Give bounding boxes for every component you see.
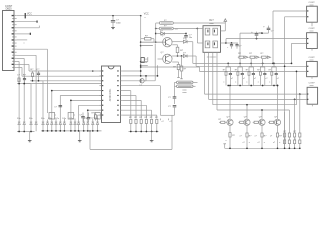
- capacitor C6: [173, 105, 177, 107]
- capacitor C12: [88, 113, 90, 118]
- wire F2 out: [173, 28, 197, 30]
- cell matrix: [223, 63, 233, 86]
- wire relay3 to CON4 pin2: [213, 104, 297, 106]
- junction cluster dots: [18, 83, 20, 85]
- wire y45.6: [141, 45, 153, 47]
- power arrow VCC2: [224, 19, 227, 22]
- wire xtal net2: [123, 80, 156, 82]
- junction dots resistor row: [130, 131, 132, 133]
- wire relay2 to CON5 pin2: [209, 98, 308, 100]
- ground drop 1: [29, 132, 31, 141]
- bus bottom left segment2: [41, 130, 102, 132]
- wire Q2 collector: [172, 55, 183, 57]
- part box on column x51.8: [49, 113, 55, 120]
- stub CON5 bottom: [311, 104, 313, 106]
- capacitor on column: [59, 105, 63, 107]
- diode D1 cluster: [32, 71, 34, 73]
- wire relay4 down: [217, 109, 289, 111]
- wire Q2 base: [158, 58, 163, 60]
- transistor Q3: [227, 119, 233, 125]
- wire y45.6: [141, 45, 153, 47]
- wires U1 left staircase: [52, 90, 102, 92]
- wire CON1 pin18 to U1: [17, 67, 22, 69]
- wire y65.4: [141, 64, 148, 66]
- junction dots busL2: [42, 130, 44, 132]
- svg-text:x: x: [101, 115, 102, 117]
- diode D5: [183, 55, 187, 58]
- junction vmain: [140, 41, 142, 43]
- svg-text:x?: x?: [254, 78, 256, 80]
- diode D2 cluster: [18, 76, 20, 78]
- wire CON1 pin12 to column: [17, 48, 48, 50]
- svg-text:xx: xx: [145, 62, 147, 64]
- wire from R4: [151, 38, 154, 40]
- wire xtal net1: [123, 75, 158, 77]
- relay RL1: [203, 26, 221, 53]
- relay RL1 contact A: [205, 41, 210, 48]
- crystal X1: [141, 58, 144, 63]
- svg-text:x: x: [249, 142, 250, 144]
- wire F2 in: [156, 28, 160, 30]
- relay pin stubs: [204, 52, 206, 94]
- fuse F1: [159, 22, 173, 25]
- wire resonator right: [193, 81, 198, 83]
- relay right pin2 wire: [221, 42, 227, 44]
- relay RL1 coil B: [213, 28, 218, 35]
- svg-text:D?x: D?x: [17, 118, 21, 120]
- svg-text:xxxx: xxxx: [310, 85, 314, 87]
- resistor row right of U1: [130, 119, 132, 123]
- wire CON1 pin16 to column: [17, 61, 20, 63]
- svg-text:R?: R?: [235, 70, 237, 72]
- resonator Y1: [175, 81, 177, 83]
- svg-text:R?: R?: [257, 70, 259, 72]
- svg-text:D?x: D?x: [29, 118, 33, 120]
- wire stub pin3: [17, 21, 37, 23]
- wire relay1 to CON5 pin1: [205, 93, 308, 95]
- wire Q3 collector: [229, 86, 231, 120]
- wire cluster2 to U1: [25, 83, 102, 85]
- connector CON2: [307, 6, 318, 22]
- bus bottom left: [90, 148, 172, 150]
- svg-text:x: x: [145, 17, 146, 19]
- svg-text:x: x: [74, 115, 75, 117]
- ground under resistor row: [151, 132, 153, 141]
- svg-text:x: x: [235, 82, 236, 84]
- wire F1 out: [173, 22, 225, 24]
- svg-text:AT89C2051: AT89C2051: [109, 88, 112, 101]
- svg-text:x?: x?: [231, 78, 233, 80]
- wire stub pin9: [17, 39, 28, 41]
- resistor Q3 emitter: [229, 125, 231, 132]
- wire U1 pin right to loop: [123, 85, 161, 87]
- resistor Q3 base: [219, 121, 221, 123]
- wire y67 long: [141, 66, 200, 68]
- svg-text:D?x: D?x: [41, 118, 45, 120]
- svg-text:VCC: VCC: [27, 14, 32, 16]
- svg-text:x: x: [226, 140, 227, 142]
- wire vertical main: [140, 16, 142, 76]
- resonator Y2: [175, 85, 177, 87]
- svg-text:x?: x?: [243, 78, 245, 80]
- resistor R5: [176, 47, 179, 52]
- wire CON1 pin15 to column: [17, 57, 25, 59]
- junction top wire: [112, 15, 114, 17]
- connector CON3: [307, 33, 318, 49]
- wire cluster1 bus: [30, 80, 43, 82]
- wire F1 in: [156, 22, 160, 24]
- connector CON4: [307, 61, 318, 76]
- LED columns bottom left: [18, 120, 20, 132]
- wire long vertical 284: [284, 17, 286, 149]
- bus bottom right: [225, 147, 300, 149]
- capacitor C5: [174, 95, 176, 97]
- driver columns Q4 Q5 Q6: [238, 104, 252, 148]
- capacitor C4: [185, 33, 187, 35]
- wire hA: [193, 62, 292, 64]
- output columns right: [284, 112, 286, 148]
- wire to CON3 pin1: [226, 38, 307, 40]
- wire to CON2 pin1: [273, 10, 307, 12]
- capacitor C2 cluster: [24, 76, 26, 78]
- bus bottom left segment1: [17, 131, 35, 133]
- diode D6 circle: [140, 79, 144, 83]
- svg-text:R?: R?: [223, 70, 225, 72]
- svg-text:x: x: [55, 115, 56, 117]
- svg-text:x: x: [246, 82, 247, 84]
- svg-text:D?x: D?x: [48, 118, 52, 120]
- svg-text:10u: 10u: [189, 37, 192, 39]
- wire Q1 base: [141, 41, 163, 43]
- svg-text:x: x: [285, 138, 286, 140]
- svg-text:x: x: [264, 142, 265, 144]
- resistor R6: [178, 62, 180, 65]
- IC U1 pins: [99, 70, 101, 72]
- svg-text:D?x: D?x: [55, 118, 59, 120]
- wire hB: [196, 65, 307, 67]
- bus under resistor row: [129, 131, 159, 133]
- wire cap chain riser: [239, 33, 241, 57]
- svg-text:x: x: [279, 142, 280, 144]
- wire Q1 emitter: [172, 44, 177, 46]
- junction dots busL1: [18, 131, 20, 133]
- wire to CON2 pin2: [285, 16, 307, 18]
- wire U1 pin20 right: [123, 70, 141, 72]
- bus y85: [228, 85, 277, 87]
- wire Q2 emitter: [172, 61, 178, 63]
- relay RL1 contact B: [213, 41, 218, 48]
- junction dots bus right: [229, 147, 231, 149]
- junction dots staircase: [51, 90, 53, 92]
- part box on column x70.9: [68, 113, 74, 120]
- junction dots bus85: [227, 85, 229, 87]
- connector CON5: [307, 87, 318, 104]
- ground drop 2: [79, 131, 81, 141]
- svg-text:100n: 100n: [116, 22, 122, 24]
- svg-text:x?: x?: [277, 78, 279, 80]
- svg-text:VCC: VCC: [144, 14, 149, 16]
- right connector pin marks: [307, 10, 309, 11]
- wire CON1 pin14 to column: [17, 54, 36, 56]
- capacitor C1 cluster: [38, 71, 40, 73]
- part box on column x97.5: [95, 113, 101, 120]
- stub CON2 bottom: [311, 22, 313, 26]
- resistor arrow clusters: [238, 53, 248, 63]
- wire cluster2 bus: [17, 83, 31, 85]
- wire CON1 pin17 to U1: [17, 64, 29, 66]
- wire y61.6: [141, 61, 148, 63]
- resistor R7: [181, 55, 183, 57]
- wire pill left drop: [155, 23, 157, 42]
- stub CON4 bottom: [311, 77, 313, 79]
- wire cluster1 to U1: [31, 80, 102, 82]
- wire Q1 collector: [172, 41, 183, 43]
- connector CON1: [3, 11, 15, 71]
- svg-text:R?: R?: [269, 70, 271, 72]
- wires U1 right staircase: [123, 90, 131, 92]
- wire hC: [199, 70, 296, 72]
- wire bus riser: [89, 131, 91, 150]
- part near IC bottom: [95, 112, 97, 115]
- IC U1: [102, 66, 121, 123]
- capacitor C8: [256, 32, 258, 34]
- wire VCC from CON1 pin1: [17, 15, 141, 17]
- wire cap chain top: [240, 32, 269, 34]
- transistor Q2: [163, 54, 172, 63]
- svg-text:R?: R?: [246, 70, 248, 72]
- svg-text:D?x: D?x: [62, 118, 66, 120]
- svg-text:x: x: [295, 138, 296, 140]
- wire bottom loop: [160, 114, 172, 116]
- svg-text:x?: x?: [265, 78, 267, 80]
- wire resonator left drop: [174, 82, 176, 95]
- stub CON3 bottom: [311, 49, 313, 51]
- svg-text:x: x: [24, 43, 25, 45]
- capacitor C9b: [236, 43, 238, 45]
- capacitor C7: [268, 26, 270, 29]
- net label VCC: [25, 13, 26, 18]
- svg-text:x: x: [269, 82, 270, 84]
- svg-text:x: x: [258, 82, 259, 84]
- wire cap chain to bus: [174, 113, 176, 115]
- wire y42: [141, 41, 165, 43]
- relay RL1 coil A: [205, 28, 210, 35]
- diode D4: [183, 40, 187, 43]
- capacitor C3: [112, 16, 114, 21]
- relay left pin wires: [196, 29, 198, 44]
- fuse F2: [159, 27, 173, 30]
- svg-text:x: x: [223, 82, 224, 84]
- transistor Q1: [163, 38, 172, 47]
- wire stub pin5: [17, 27, 40, 29]
- capacitor C11: [82, 113, 84, 117]
- diode D3: [156, 33, 161, 35]
- connector CON1 pins: [14, 15, 17, 17]
- capacitor C9: [226, 42, 238, 44]
- resistor R4: [141, 38, 145, 40]
- wire stub pin7: [17, 33, 31, 35]
- wire to CON3 pin2: [292, 42, 307, 44]
- svg-text:D?x: D?x: [69, 118, 73, 120]
